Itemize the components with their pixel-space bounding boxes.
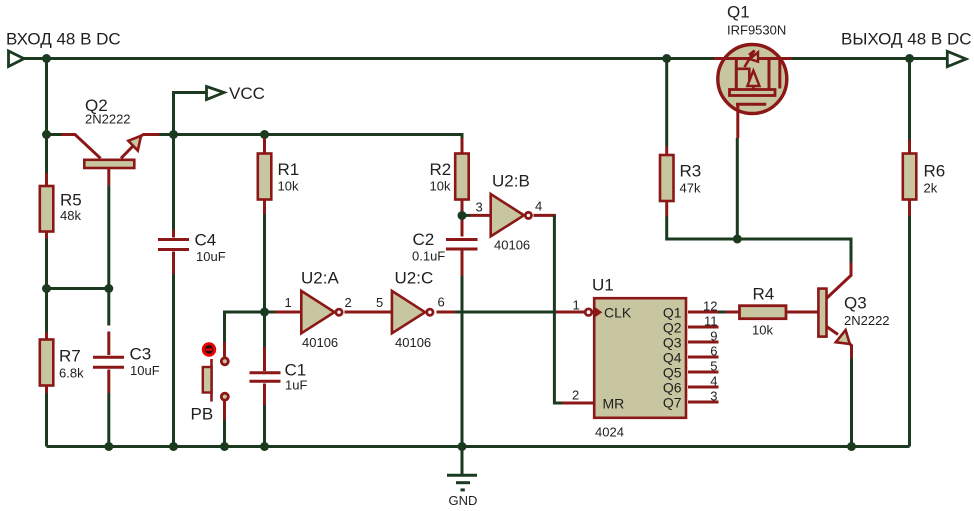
svg-text:U2:C: U2:C [395, 269, 434, 288]
resistor R3 [660, 59, 851, 263]
svg-text:0.1uF: 0.1uF [412, 249, 445, 264]
wire link R5 node to C3 node [47, 287, 109, 290]
svg-text:4: 4 [710, 374, 717, 389]
resistor R7 [40, 289, 54, 447]
wire Q1 gate down [736, 138, 739, 239]
wire U2:B out to U1 MR [534, 214, 556, 217]
svg-text:2: 2 [345, 295, 352, 310]
svg-text:1: 1 [285, 295, 292, 310]
svg-text:2N2222: 2N2222 [85, 112, 131, 127]
push button PB [202, 312, 265, 447]
svg-text:2: 2 [572, 388, 579, 403]
svg-text:10k: 10k [430, 179, 451, 194]
svg-text:R6: R6 [924, 162, 946, 181]
wire top rail right (Q1 to output) [790, 57, 947, 60]
pin stub Q1/12 [688, 311, 719, 314]
svg-text:5: 5 [376, 295, 383, 310]
svg-text:2k: 2k [924, 181, 938, 196]
svg-text:Q1: Q1 [663, 304, 682, 320]
wire pin12 to R4 [719, 311, 726, 314]
node input junction [42, 54, 51, 63]
node VCC/C4 junction [169, 130, 178, 139]
svg-text:10k: 10k [752, 323, 773, 338]
svg-text:R3: R3 [680, 162, 702, 181]
svg-text:40106: 40106 [494, 238, 530, 253]
capacitor C1 [250, 312, 281, 447]
node R1 top junction [260, 130, 269, 139]
inverter U2:A [301, 291, 342, 333]
svg-text:C2: C2 [413, 230, 435, 249]
output terminal ВЫХОД [947, 51, 966, 66]
pin stub Q4/6 [688, 356, 719, 359]
svg-text:Q5: Q5 [663, 364, 682, 380]
svg-text:10k: 10k [278, 179, 299, 194]
svg-text:Q1: Q1 [727, 3, 750, 22]
svg-text:4024: 4024 [595, 425, 624, 440]
wire input drop to Q2 collector [45, 59, 48, 135]
svg-text:C4: C4 [195, 231, 217, 250]
pin stub Q5/5 [688, 371, 719, 374]
node R5/R7 junction [42, 284, 51, 293]
transistor Q2 [47, 135, 160, 186]
inverter U2:C [392, 291, 433, 333]
transistor Q3 [818, 289, 851, 447]
svg-text:5: 5 [710, 359, 717, 374]
node Q2 base/C3 junction [104, 284, 113, 293]
svg-text:12: 12 [703, 298, 717, 313]
svg-text:R7: R7 [59, 347, 81, 366]
svg-text:Q2: Q2 [663, 319, 682, 335]
wire U2:B input [462, 214, 470, 217]
wire U2:A out to U2:C in [345, 311, 393, 314]
node R3 top junction [662, 54, 671, 63]
pin stub Q7/3 [688, 401, 719, 404]
svg-text:11: 11 [704, 314, 718, 329]
wire Q2 base down to C3 [107, 185, 110, 325]
svg-text:Q3: Q3 [663, 334, 682, 350]
svg-text:U2:B: U2:B [492, 172, 530, 191]
svg-text:R2: R2 [430, 160, 452, 179]
resistor R5 [40, 135, 54, 289]
svg-text:VCC: VCC [229, 84, 265, 103]
node C4 bottom junction [169, 442, 178, 451]
capacitor C2 [446, 240, 478, 447]
wire U2:C out to U1 CLK [437, 311, 456, 314]
svg-text:3: 3 [476, 200, 483, 215]
node GND junction [458, 442, 467, 451]
wire gate row corner to Q3 collector [826, 263, 851, 300]
power terminal VCC [207, 87, 225, 100]
node Q2 collector junction [42, 130, 51, 139]
node Q3 emitter junction [847, 442, 856, 451]
node R2/C2/U2:B junction [458, 211, 467, 220]
svg-text:4: 4 [535, 199, 542, 214]
svg-text:IRF9530N: IRF9530N [727, 23, 786, 38]
svg-text:40106: 40106 [302, 335, 338, 350]
capacitor C3 [93, 332, 124, 447]
svg-text:U2:A: U2:A [301, 269, 339, 288]
svg-text:6: 6 [438, 295, 445, 310]
pin stub Q3/9 [688, 341, 719, 344]
svg-text:3: 3 [710, 389, 717, 404]
svg-text:CLK: CLK [604, 305, 632, 321]
resistor R2 [455, 138, 469, 237]
ground symbol [447, 447, 477, 490]
node PB bottom junction [220, 442, 229, 451]
svg-text:9: 9 [710, 329, 717, 344]
svg-text:ВЫХОД 48 В DC: ВЫХОД 48 В DC [841, 29, 972, 48]
svg-text:R1: R1 [278, 160, 300, 179]
MOSFET Q1 [714, 45, 792, 139]
node R6 top junction [905, 54, 914, 63]
node C1 bottom junction [260, 442, 269, 451]
svg-text:R4: R4 [753, 285, 775, 304]
svg-text:40106: 40106 [395, 335, 431, 350]
pin stub Q6/4 [688, 386, 719, 389]
wire top rail left (input to Q1) [24, 57, 714, 60]
svg-text:6.8k: 6.8k [59, 366, 84, 381]
wire U2:A input [265, 311, 276, 314]
resistor R4 [726, 306, 818, 319]
svg-text:ВХОД 48 В DC: ВХОД 48 В DC [6, 29, 121, 48]
svg-text:Q4: Q4 [663, 349, 682, 365]
svg-text:MR: MR [603, 396, 625, 412]
svg-text:Q7: Q7 [663, 394, 682, 410]
inverter U2:B [491, 194, 532, 236]
wire bottom rail [47, 445, 910, 448]
svg-text:C3: C3 [130, 345, 152, 364]
resistor R6 [903, 59, 917, 447]
resistor R1 [258, 135, 272, 313]
svg-text:48k: 48k [60, 208, 81, 223]
node U2:A input junction [260, 308, 269, 317]
svg-text:GND: GND [449, 493, 478, 508]
svg-text:10uF: 10uF [130, 363, 160, 378]
node gate junction [733, 235, 742, 244]
svg-text:R5: R5 [60, 191, 82, 210]
capacitor C4 [158, 135, 189, 447]
svg-text:Q3: Q3 [844, 294, 867, 313]
svg-text:1: 1 [573, 298, 580, 313]
svg-text:Q6: Q6 [663, 379, 682, 395]
node C3 bottom junction [104, 442, 113, 451]
input terminal ВХОД [9, 51, 25, 67]
svg-text:1uF: 1uF [285, 378, 307, 393]
wire VCC branch [174, 93, 207, 135]
svg-text:PB: PB [191, 405, 214, 424]
svg-text:2N2222: 2N2222 [844, 313, 890, 328]
svg-text:47k: 47k [680, 181, 701, 196]
wire VCC rail (Q2 emitter to R2) [160, 135, 463, 142]
IC U1 4024 [585, 298, 686, 418]
pin stub Q2/11 [688, 326, 719, 329]
svg-text:U1: U1 [592, 276, 614, 295]
svg-text:10uF: 10uF [196, 249, 226, 264]
svg-text:6: 6 [710, 344, 717, 359]
